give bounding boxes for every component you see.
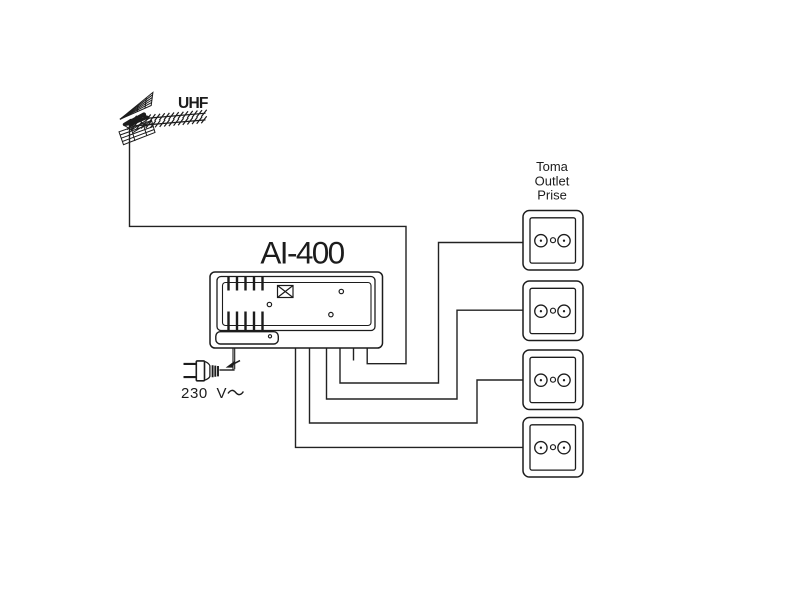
svg-text:V: V <box>217 385 227 402</box>
svg-text:AI-400: AI-400 <box>260 235 344 271</box>
svg-text:Toma: Toma <box>536 159 569 174</box>
svg-text:UHF: UHF <box>178 95 208 112</box>
svg-text:230: 230 <box>181 385 208 402</box>
svg-text:Prise: Prise <box>537 188 567 203</box>
svg-text:Outlet: Outlet <box>535 173 570 188</box>
